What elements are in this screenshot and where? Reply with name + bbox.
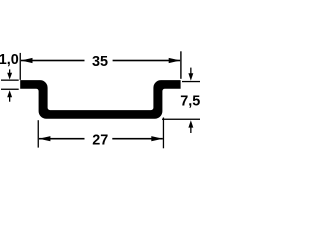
- dimension 27: right arrowhead: [151, 136, 163, 141]
- dimension 1,0: lower tick: [1, 89, 19, 90]
- dimension 35: right arrowhead: [169, 58, 181, 63]
- dimension 27: right extension line: [163, 118, 164, 149]
- dimension 7,5: upper arrow (down): [190, 68, 191, 74]
- svg-text:1,0: 1,0: [0, 52, 19, 68]
- svg-text:27: 27: [92, 132, 108, 148]
- dimension 1,0: lower arrow (up): [9, 97, 10, 102]
- DIN rail hat profile cross-section: [20, 80, 180, 119]
- svg-text:7,5: 7,5: [180, 93, 200, 109]
- dimension 7,5: upper tick: [182, 81, 200, 82]
- dimension 35: line right segment: [113, 60, 181, 62]
- dimension 35: left extension line: [20, 53, 21, 80]
- dimension 1,0: upper arrow (down): [9, 69, 10, 74]
- dimension 35: line left segment: [21, 60, 85, 62]
- dimension 7,5: lower arrow (up): [190, 127, 191, 133]
- dimension 1,0: upper tick: [1, 80, 19, 81]
- dimension 27: line right segment: [112, 138, 163, 140]
- dimension 35: left arrowhead: [21, 58, 33, 63]
- dimension 27: left extension line: [38, 120, 39, 147]
- dimension 27: line left segment: [39, 138, 85, 140]
- dimension 35: right extension line: [180, 51, 181, 79]
- dimension 27: left arrowhead: [39, 136, 51, 141]
- dimension 7,5: lower tick: [162, 119, 200, 120]
- svg-text:35: 35: [92, 54, 108, 70]
